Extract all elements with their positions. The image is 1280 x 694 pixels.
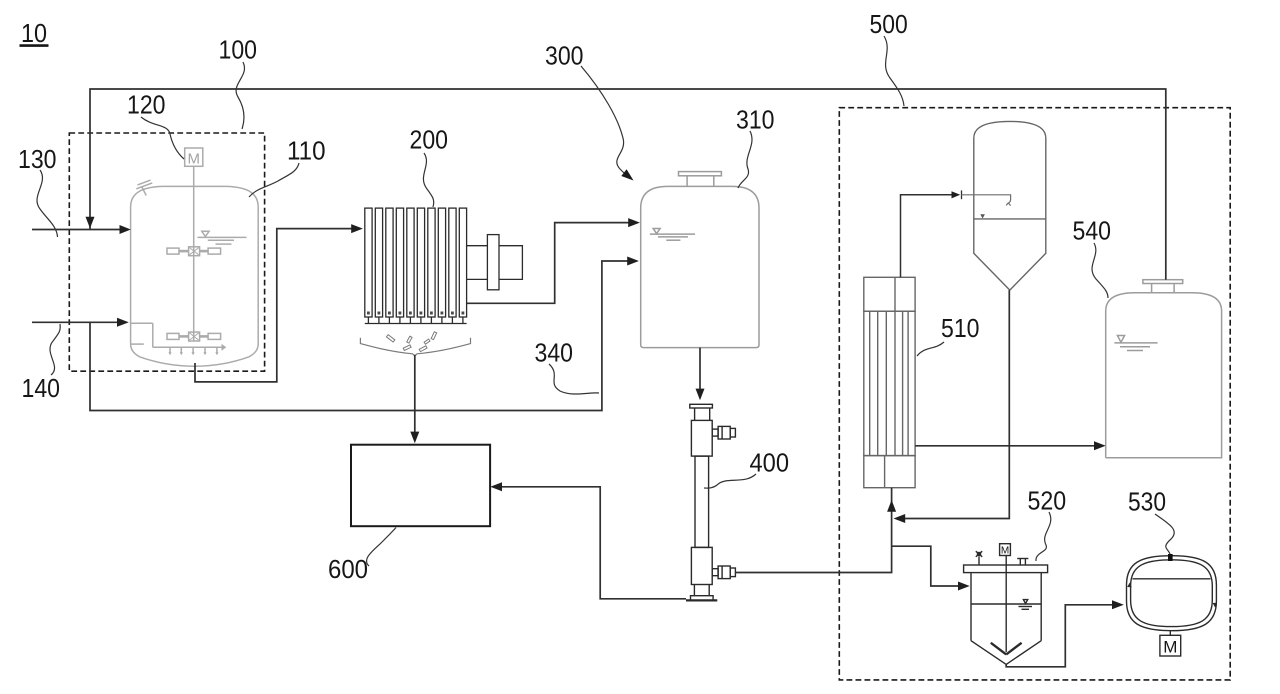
tank 540: [1106, 280, 1222, 458]
svg-text:M: M: [1001, 546, 1009, 557]
200 drive block: [487, 235, 499, 290]
leader 540: [1092, 243, 1108, 298]
tank 540 level mark: [1117, 336, 1124, 343]
dashed box 100: [69, 133, 264, 371]
svg-text:M: M: [187, 150, 200, 167]
arrowheads: [86, 191, 1124, 609]
wire feed 140: [32, 321, 118, 323]
tank 310: [641, 172, 759, 348]
svg-text:110: 110: [287, 136, 326, 166]
rotary drum 530: [1127, 556, 1218, 656]
leader 500: [884, 36, 904, 106]
520 top-right nozzle: [1017, 558, 1028, 560]
falling strands: [386, 332, 436, 352]
leader 530: [1155, 514, 1174, 554]
wire 340 path: [90, 261, 628, 411]
leader 310: [738, 131, 752, 188]
leader 520: [1036, 512, 1051, 561]
motor M 120 box: [185, 148, 203, 166]
arrow into 400 top: [696, 389, 705, 401]
svg-text:200: 200: [410, 125, 449, 155]
svg-text:340: 340: [535, 337, 574, 367]
svg-text:600: 600: [328, 554, 368, 584]
flow lines: [32, 89, 1166, 667]
arrow left into 510 stub: [894, 514, 906, 523]
leader 300 arrowhead: [621, 169, 633, 180]
arrow into 200: [351, 224, 363, 233]
svg-text:520: 520: [1028, 486, 1067, 516]
leader lines: [37, 36, 1174, 566]
lower impeller: [167, 333, 179, 339]
520 stirrer shaft: [1005, 556, 1007, 653]
cyclone hopper: [974, 121, 1046, 290]
arrow into hopper spray line: [952, 191, 961, 198]
530 top dot: [1168, 554, 1173, 561]
stirrer shaft: [193, 166, 195, 341]
sparger: [153, 346, 222, 348]
wire top recycle rail: [90, 89, 1166, 280]
svg-text:400: 400: [750, 447, 790, 477]
svg-text:140: 140: [22, 373, 61, 403]
wire 400 side to 510 and 520: [735, 488, 891, 573]
arrow into 600 right: [490, 482, 502, 491]
520 motor box: [1000, 544, 1011, 556]
wire hopper discharge: [905, 290, 1009, 518]
devolatilizer 200 plates: [365, 208, 523, 323]
svg-text:310: 310: [736, 104, 775, 134]
arrow 140 into reactor: [117, 318, 129, 327]
arrow up into 510 bottom: [887, 500, 896, 512]
520 impeller: [991, 643, 1006, 655]
leader 140: [50, 324, 60, 375]
svg-text:540: 540: [1073, 216, 1112, 246]
tank 310 level mark: [653, 229, 660, 234]
520 small agitator port: [978, 557, 980, 566]
svg-text:300: 300: [545, 41, 584, 71]
wire 400 bottom to 600: [502, 487, 686, 599]
wire 310 outlet: [699, 348, 701, 390]
wire reactor outlet to 200: [195, 229, 352, 382]
wire trough to 600: [414, 355, 416, 433]
svg-text:530: 530: [1128, 487, 1166, 517]
svg-text:120: 120: [127, 89, 166, 119]
tank 310 flange: [679, 172, 722, 176]
leader 110: [249, 163, 299, 197]
leader 600: [366, 528, 396, 567]
arrow into 520: [958, 582, 970, 591]
svg-text:M: M: [1163, 637, 1177, 656]
svg-text:500: 500: [870, 9, 908, 39]
wire 510 to 540: [915, 445, 1094, 447]
400 tube: [695, 456, 709, 547]
column 400: [686, 404, 735, 600]
wire 200 to 310: [467, 223, 629, 304]
leader 300: [581, 66, 628, 177]
arrow down into 130 line: [86, 217, 95, 229]
400 bottom side fitting: [712, 569, 718, 576]
arrow lower into 310: [627, 257, 639, 266]
arrow 130 into reactor: [120, 225, 131, 234]
leader 340: [549, 364, 599, 394]
leader 120: [141, 117, 184, 159]
leader 130: [37, 170, 57, 237]
arrow into 600 top: [410, 432, 419, 444]
leader 200: [423, 153, 433, 207]
reactor 110: [131, 148, 259, 366]
dashed box 500: [839, 108, 1230, 680]
arrow into 540: [1094, 441, 1106, 450]
520 level mark: [1023, 600, 1027, 604]
svg-text:130: 130: [18, 144, 57, 174]
upper impeller: [167, 248, 179, 254]
400 top side fitting: [712, 429, 718, 436]
wire 510 top to hopper spray: [901, 195, 953, 277]
wire 520 outlet to 530: [1006, 605, 1112, 667]
leader 510: [917, 342, 944, 356]
inlet channel step: [131, 322, 153, 324]
top-left valve nozzle: [142, 186, 147, 195]
svg-text:10: 10: [21, 18, 47, 48]
arrow into 530: [1112, 600, 1124, 609]
tank 540 flange: [1143, 280, 1183, 284]
heat exchanger 510: [864, 277, 915, 487]
200 drive shaft duct: [467, 245, 488, 247]
leader 100: [236, 62, 244, 129]
box 600: [351, 445, 490, 527]
svg-text:100: 100: [219, 35, 258, 65]
plate feet rail: [365, 323, 467, 325]
wire feed 130: [32, 229, 121, 231]
arrow upper into 310: [628, 218, 640, 227]
svg-text:510: 510: [941, 313, 980, 343]
leader 400: [704, 474, 756, 488]
liquid level mark: [202, 231, 209, 236]
strand trough: [360, 332, 470, 356]
mixer vessel 520: [964, 544, 1048, 665]
